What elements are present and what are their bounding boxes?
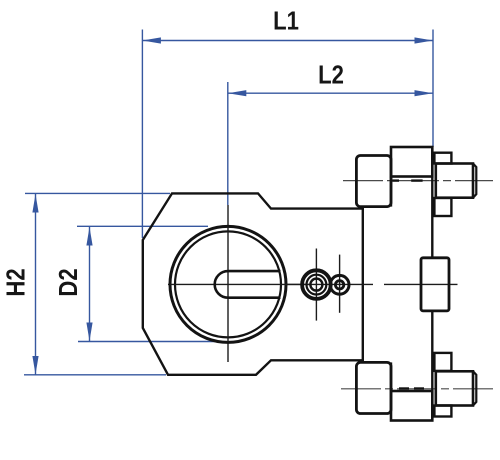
- clamp screw right rings: [330, 275, 349, 294]
- dimension H2 line with arrows: [32, 194, 38, 375]
- top bolt left block: [356, 156, 391, 207]
- bottom bolt hidden thread dashes: [399, 387, 424, 389]
- svg-text:L2: L2: [318, 61, 344, 90]
- main body fill: [143, 193, 363, 374]
- bottom bolt upper step: [434, 353, 451, 371]
- svg-text:D2: D2: [54, 268, 83, 296]
- dimension L2 extension line left: [227, 82, 229, 205]
- dimension D2 extension line bottom: [78, 341, 215, 343]
- bolt centerline bottom: [341, 388, 493, 390]
- bore outer circle: [170, 226, 286, 342]
- label L1: [273, 7, 299, 36]
- dimension L2 line with arrows: [228, 90, 433, 96]
- bottom bolt head: [436, 371, 477, 405]
- keyhole slot: [215, 271, 281, 298]
- plate bottom block: [391, 391, 432, 421]
- label D2: [54, 268, 83, 296]
- top bolt head: [436, 164, 477, 198]
- bolt centerline top: [343, 180, 493, 182]
- bottom bolt lower step: [434, 406, 451, 417]
- dimension H2 extension line bottom: [24, 374, 166, 376]
- plate left edge segment lower: [390, 362, 392, 391]
- bore vertical centerline: [227, 205, 229, 362]
- bottom bolt left block: [356, 362, 391, 413]
- clamp screw right crosshair: [339, 255, 341, 313]
- dimension D2 line with arrows: [86, 227, 92, 341]
- plate top block: [391, 147, 432, 177]
- clamp screw left crosshair: [315, 249, 317, 321]
- bore horizontal centerline: [168, 283, 458, 285]
- clamp screw left rings: [302, 270, 331, 299]
- mounting plate right edge: [431, 177, 433, 392]
- top bolt hidden thread dashes: [393, 179, 423, 181]
- bore inner circle: [175, 231, 281, 337]
- svg-text:L1: L1: [273, 7, 299, 36]
- bore crosshair: [170, 226, 310, 342]
- main body outline: [143, 193, 363, 374]
- dimension H2 extension line top: [25, 192, 170, 194]
- dimension D2 extension line top: [77, 225, 208, 227]
- dimension L1 line with arrows: [142, 37, 433, 43]
- top bolt lower step: [434, 198, 451, 216]
- dimension L1/L2 extension line right: [432, 30, 434, 148]
- top bolt upper step: [434, 153, 451, 164]
- dimension L1 extension line left: [141, 30, 143, 239]
- label L2: [318, 61, 344, 90]
- svg-text:H2: H2: [2, 268, 31, 296]
- middle boss rectangle: [421, 258, 449, 311]
- plate left edge segment upper: [390, 177, 392, 207]
- label H2: [2, 268, 31, 296]
